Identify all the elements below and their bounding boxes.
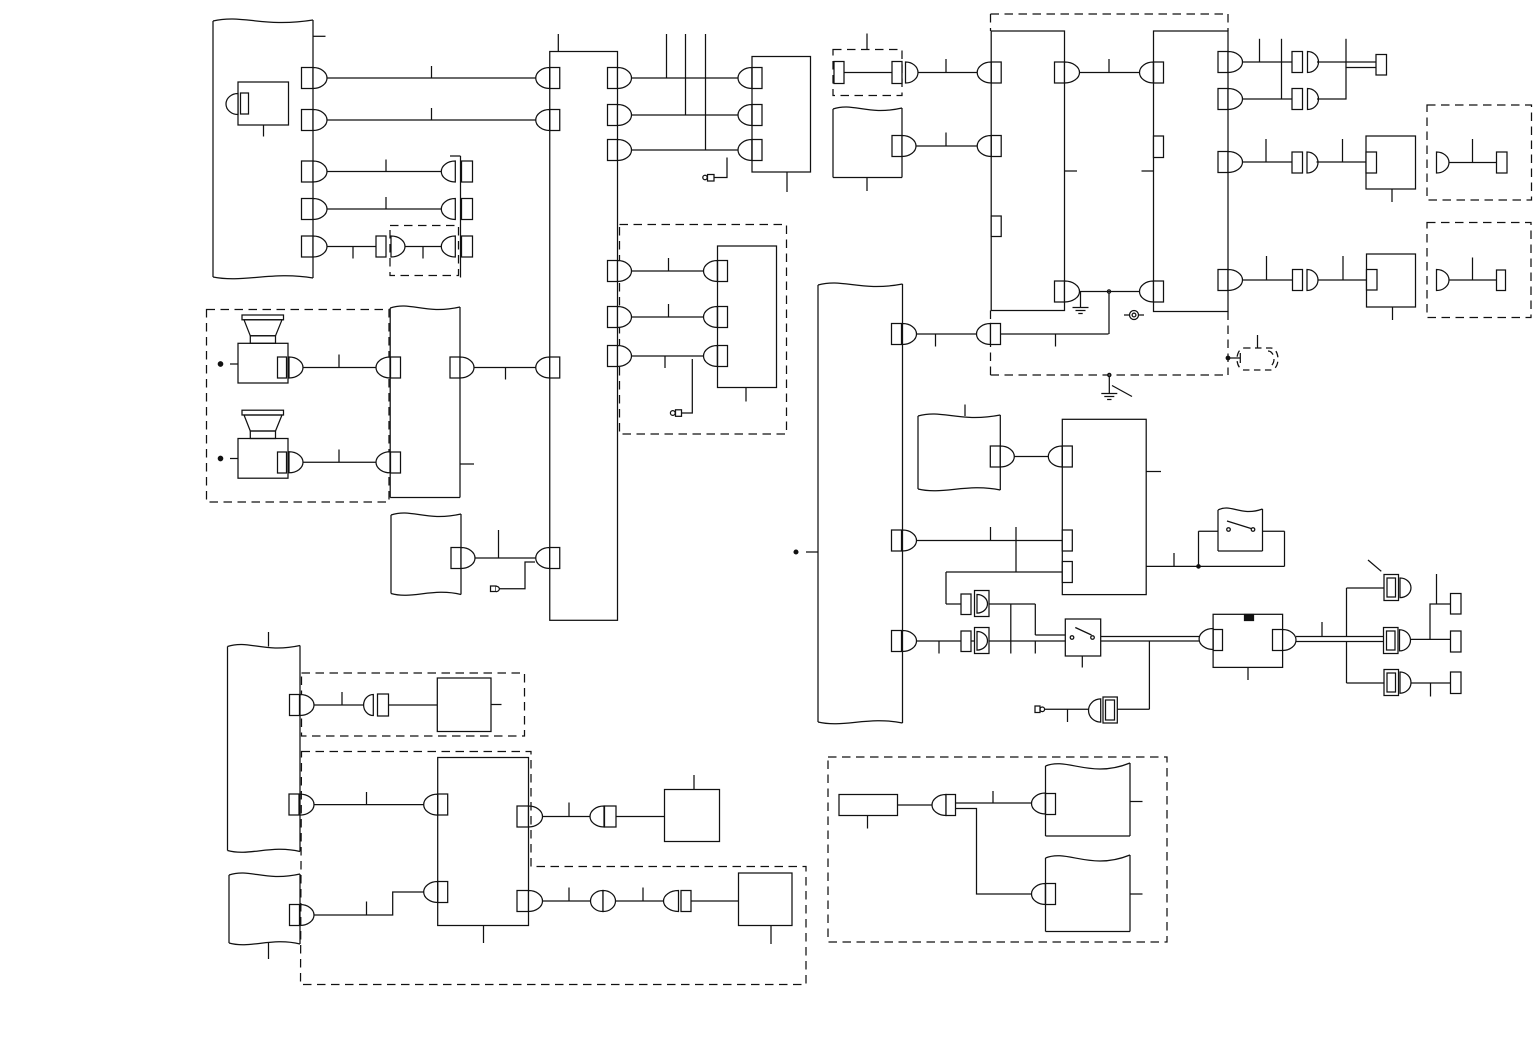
CB top stub [557, 34, 559, 52]
WH4 bottom stub [268, 943, 270, 959]
tick [1321, 622, 1323, 637]
row2 joint D [1308, 89, 1319, 110]
speaker magnet body [238, 343, 288, 383]
dashed box DB3 [302, 673, 525, 736]
B7 pin square [1367, 270, 1378, 291]
CB right pin 2 square [608, 105, 618, 126]
MB pin2 square [391, 452, 401, 473]
DB1 D right [391, 236, 405, 257]
row2 tick [668, 304, 670, 317]
wire DB2->BX1 [918, 72, 977, 74]
DBB2 tick [1472, 258, 1474, 281]
harness box WH2 (wavy ends) [918, 414, 1000, 418]
row3 tick [664, 356, 666, 368]
wire BX2 row4 [1243, 279, 1293, 281]
B3 left square2 (no D) [1062, 530, 1072, 551]
SW1 contact R [1251, 528, 1255, 532]
CN2 D [1400, 630, 1411, 651]
DBB left lower [990, 311, 992, 376]
tick 2 [642, 888, 644, 902]
B9 top stub [693, 775, 695, 790]
TB right pin2 square [517, 891, 529, 912]
BX2 left pin2 D [1140, 281, 1154, 302]
BX2 left pin1 square [1154, 62, 1164, 83]
CB right pin 5 square [608, 307, 618, 328]
AL4 circle [1040, 707, 1045, 712]
BX2 left square (no D) [1154, 136, 1164, 158]
tick [366, 902, 368, 916]
component box B6 [1366, 136, 1416, 189]
BX1 right pin2 square [1055, 281, 1065, 302]
SP1 dash [230, 363, 238, 365]
wire CB->B5 row2 [632, 114, 739, 116]
CB right pin 4 D [618, 261, 632, 282]
terminal T0 [1376, 55, 1387, 76]
tick [935, 334, 937, 347]
ground G2 junction circle [1108, 373, 1111, 376]
TB left pin1 D [424, 794, 438, 815]
B4 right pin square [1273, 630, 1283, 651]
joint D-in-box JC1b [975, 591, 990, 617]
wire to B9 [616, 816, 665, 818]
ground G2 [1101, 393, 1117, 395]
H1 pin 2 D [313, 110, 327, 131]
SW1 blade [1227, 521, 1251, 529]
tick [945, 59, 947, 73]
BX2 right pin 4 D [1228, 270, 1243, 291]
mated pair D left [591, 891, 604, 912]
CH left stub [806, 551, 818, 553]
CMP1 inner pin rect [241, 93, 249, 114]
junction block BX1 [991, 31, 1064, 311]
wire CB->B11 row1 [632, 270, 704, 272]
CB left pin3 D [536, 357, 550, 378]
component box B3 [1062, 419, 1146, 594]
joint rect JC2a [961, 631, 971, 652]
DBB bottom [991, 374, 1229, 376]
wire to B7 [1318, 279, 1367, 281]
row1 tick [1259, 39, 1261, 62]
BX2 right pin 1 D [1228, 52, 1243, 73]
noise filter F1 lead left [1124, 314, 1130, 316]
G2 diagonal stroke [1112, 386, 1132, 397]
dashed box DBA [1427, 105, 1532, 200]
row3 tick [1265, 139, 1267, 162]
branch wire to CN1 [1347, 587, 1385, 589]
J1 row1 square [462, 161, 473, 182]
wire A to WH5 [956, 802, 1032, 804]
BX2 right pin 3 square [1218, 152, 1228, 173]
H1 pin 4 square [302, 199, 314, 220]
speaker cone [244, 415, 282, 431]
CH pin2 D [903, 530, 917, 551]
tick [366, 792, 368, 805]
component box TB [438, 758, 529, 926]
component box B4 (tuner) [1213, 614, 1283, 667]
AL2 plug rect [676, 410, 682, 417]
CB right pin 4 square [608, 261, 618, 282]
tall tick [1436, 574, 1438, 604]
WH6 pin square [1046, 884, 1056, 905]
B5 pin2 D [738, 105, 752, 126]
WH1 pin D [902, 136, 916, 157]
vertical feed line 2 [685, 34, 687, 115]
joint row wire a [946, 603, 961, 605]
DBA D [1437, 152, 1450, 173]
tick [1173, 553, 1175, 566]
wire W5 H1->inline connector [327, 246, 376, 248]
DB2 right rect [892, 62, 902, 84]
joint row wire b [989, 603, 1035, 605]
component box B11 [718, 246, 777, 388]
row1 tick [668, 258, 670, 271]
shielded pair wire lower SW2->B4 [1101, 640, 1199, 642]
tick/branch [1345, 39, 1347, 68]
SW2 bottom stub [1081, 656, 1083, 668]
CB right pin 2 D [618, 105, 632, 126]
terminal T2 [1451, 631, 1462, 652]
pair wire upper B4->CN2 [1296, 636, 1384, 638]
W1 tick [431, 66, 433, 78]
loop junction dot [1197, 565, 1200, 568]
tick [1108, 59, 1110, 73]
BX1 left pin1 square [991, 62, 1001, 83]
CB right pin 5 D [618, 307, 632, 328]
central junction box CB [550, 52, 618, 621]
harness box WH5 (wavy top) [1046, 763, 1131, 769]
WH4 pin D [300, 905, 314, 926]
DBA terminal [1497, 152, 1508, 173]
WH6 right stub [1130, 893, 1143, 895]
stub on H1 top right [313, 35, 326, 37]
AL4 wire [1045, 708, 1089, 710]
BX2 left pin1 D [1140, 62, 1154, 83]
ground G1 stem [1080, 292, 1082, 308]
branch riser up [1346, 588, 1348, 637]
WH4 pin square [290, 905, 300, 926]
tick [568, 803, 570, 817]
H1 pin 1 square [302, 68, 314, 89]
dashed box DBR [828, 757, 1167, 942]
H1 pin 3 square [302, 161, 314, 182]
H1 pin 1 D [313, 68, 327, 89]
WH3 top stub [268, 632, 270, 647]
wire to B8 [389, 704, 438, 706]
B4 pin D [1199, 629, 1213, 650]
harness box MB (wavy top) [390, 306, 460, 310]
inline connector rect on W5 [376, 236, 386, 257]
B5 bottom stub [786, 172, 788, 192]
wire to B10 [691, 900, 739, 902]
wire MB->CB [474, 367, 536, 369]
DB2 output D [906, 62, 918, 83]
drop to joint row [945, 572, 947, 604]
joint rect JC1a [961, 594, 971, 615]
wire CB->B5 row1 [632, 77, 739, 79]
WH3 pin2 square [289, 794, 299, 815]
B6 bottom stub [1391, 189, 1393, 202]
CN1 D [1400, 578, 1411, 598]
wire W1 H1->CB [327, 77, 536, 79]
speaker cone [244, 320, 282, 336]
component box B9 [665, 790, 720, 842]
BX1 left square (no D) [991, 216, 1001, 237]
CMP1 pin D [226, 94, 238, 115]
wire R1->joint [898, 804, 933, 806]
speaker magnet body [238, 439, 288, 479]
AL2 wire [682, 359, 693, 413]
wire CH->B3 pin2 [917, 540, 1063, 542]
wire BX1->BX2 top [1080, 72, 1141, 74]
CB left pin2 D [536, 110, 550, 131]
loop wire to SW1 [1199, 530, 1219, 532]
tick [1055, 334, 1057, 347]
wire to antenna rod [1230, 357, 1241, 359]
coax plug D [1089, 699, 1101, 722]
DBB right upper [1227, 14, 1229, 31]
wire BX2 row1 [1243, 61, 1293, 63]
CB right pin 6 D [618, 346, 632, 367]
SW2 contact R [1091, 636, 1095, 640]
wire W4 H1->strip J1 [327, 208, 442, 210]
dashed box DBB around BX1/BX2 - top [991, 13, 1229, 15]
B5 pin3 D [738, 140, 752, 161]
wire TB->joint row1 [543, 816, 590, 818]
B5 pin1 D [738, 68, 752, 89]
B11 pin2 square [718, 307, 728, 328]
row4 joint rect [1293, 270, 1303, 291]
BX2 left stub [1142, 170, 1154, 172]
SW2 blade [1075, 628, 1091, 636]
component box B7 [1367, 254, 1416, 307]
wire W5b [405, 246, 442, 248]
B8 right stub [491, 704, 502, 706]
CB left pin1 D [536, 68, 550, 89]
branch drop down [1346, 642, 1348, 684]
W5 tick [352, 247, 354, 259]
junction block BX2 [1154, 31, 1229, 312]
BX2 left pin2 square [1154, 281, 1164, 302]
J1 row2 D [441, 199, 455, 220]
wire W3 H1->strip J1 [327, 171, 442, 173]
harness box WH6 (wavy top) [1046, 855, 1131, 861]
W3 tick [385, 160, 387, 172]
joint D row2 [664, 891, 679, 912]
CB left pin4 square [550, 548, 560, 569]
CH pin3 square [892, 631, 902, 652]
CB right pin 3 D [618, 140, 632, 161]
wire WH3->TB [314, 804, 424, 806]
row2 wire and riser to T0 [1317, 68, 1376, 100]
wire W2 H1->CB [327, 119, 536, 121]
component box B5 [752, 57, 811, 173]
J1 row1 D [441, 161, 455, 182]
AL3 wire [499, 562, 535, 589]
SP2 wire tick [338, 450, 340, 463]
CH pin1 square [892, 324, 902, 345]
SP1 pin rect [278, 357, 287, 378]
B6 pin square [1366, 152, 1377, 173]
B11 pin1 D [704, 261, 718, 282]
wire to B6 [1317, 161, 1367, 163]
B4 right pin D [1283, 630, 1296, 651]
wire CB->B11 row2 [632, 316, 704, 318]
tick [341, 692, 343, 705]
BX2 right pin 2 square [1218, 89, 1228, 110]
DBB left upper [990, 14, 992, 31]
H1 pin 4 D [313, 199, 327, 220]
BX1 right pin1 square [1055, 62, 1065, 83]
dashed box DSP (speakers) [207, 310, 390, 503]
CN1 inner [1387, 578, 1396, 597]
dashed box DBB2 [1427, 223, 1531, 318]
WH3 pin2 D [300, 794, 314, 815]
connecting vertical V1 [1010, 604, 1012, 654]
R1 bottom stub [867, 816, 869, 829]
tick [1342, 139, 1344, 162]
junction dot [1107, 290, 1110, 293]
condenser rect R1 [839, 795, 898, 816]
wire row1 to T0 [1317, 61, 1376, 63]
center harness box CH (wavy ends) [818, 283, 903, 287]
F1 inner circle [1132, 313, 1136, 317]
wire CH->SW2 [917, 640, 1066, 642]
B11 pin2 D [704, 307, 718, 328]
wire tick [505, 368, 507, 380]
B3 left square3 (no D) [1062, 562, 1072, 583]
J1 row3 square [462, 236, 473, 257]
F1 outer circle [1130, 311, 1139, 320]
B5 pin2 square [752, 105, 762, 126]
joint rect [378, 694, 389, 716]
CB left pin2 square [550, 110, 560, 131]
coax wire [1117, 708, 1149, 710]
switch box SW2 [1065, 619, 1100, 656]
BX2 right pin 3 D [1228, 152, 1243, 173]
tick [1342, 256, 1344, 280]
junction dot on DBB right [1226, 356, 1230, 360]
SP2 dot [218, 456, 222, 460]
SP1 pin D [289, 357, 303, 378]
H1 pin 5 square [302, 236, 314, 257]
B11 pin3 square [718, 346, 728, 367]
DBA wire [1449, 162, 1497, 164]
coax riser [1148, 641, 1150, 709]
B4 black mark [1245, 615, 1254, 621]
antenna rod (dashed cylinder) [1237, 348, 1278, 370]
DB2 left rect [834, 62, 844, 84]
tick [945, 133, 947, 147]
ground wire from BX1 pin2 [1080, 291, 1141, 293]
harness connector box H1 (wavy ends) [213, 19, 313, 23]
BX1 left pin2 D [977, 136, 991, 157]
B11 pin1 square [718, 261, 728, 282]
joint D-in-box JC2b [975, 628, 990, 654]
CB left pin4 D [536, 548, 550, 569]
joint square [946, 795, 956, 816]
row1 joint D [1308, 52, 1319, 73]
DB2 internal wire [844, 72, 892, 74]
DBB left pin D [977, 324, 991, 345]
BX2 right pin 1 square [1218, 52, 1228, 73]
harness box WH3 (wavy ends) [228, 644, 301, 648]
LB right pin D [461, 548, 475, 569]
BX1 left pin1 D [977, 62, 991, 83]
B3 right stub [1146, 471, 1161, 473]
SW2 contact L [1070, 636, 1074, 640]
wire B elbow to WH6 [956, 809, 1032, 895]
row3 joint D [1307, 152, 1318, 173]
wire CN3->T3 [1411, 682, 1451, 684]
W5b tick [422, 247, 424, 259]
SP2 pin D [289, 452, 303, 473]
DBA tick [1472, 139, 1474, 163]
CB right pin 6 square [608, 346, 618, 367]
row3 joint rect [1292, 152, 1303, 173]
switch harness SW1 (wavy top) [1218, 508, 1263, 512]
MB pin1 square [391, 357, 401, 378]
TB bottom stub [483, 926, 485, 944]
feed wire inside DBB [1001, 333, 1109, 335]
MB pin1 D [376, 357, 390, 378]
loop right riser [1284, 531, 1286, 566]
B3 pin1 square [1062, 446, 1072, 467]
AL4 tick down [1067, 709, 1069, 722]
B5 pin1 square [752, 68, 762, 89]
J1 top bracket [450, 155, 461, 157]
wire BX2 row3 [1243, 161, 1293, 163]
loop left riser [1198, 531, 1200, 566]
joint rect row1 [605, 806, 617, 827]
CB right pin 1 D [618, 68, 632, 89]
antenna lead AL4 rect [1035, 706, 1040, 713]
WH2 pin D [1000, 446, 1014, 467]
B3 pin1 D [1048, 446, 1062, 467]
LB right pin square [451, 548, 461, 569]
H1 pin 2 square [302, 110, 314, 131]
branch wire to CN3 [1347, 682, 1385, 684]
wire BX2 row2 [1243, 98, 1293, 100]
CB right pin 1 square [608, 68, 618, 89]
DBB2 wire [1449, 279, 1497, 281]
B4 pin square [1213, 630, 1222, 651]
branch left segment [946, 571, 1016, 573]
TB left pin1 square [438, 794, 448, 815]
CH pin3 D [903, 631, 917, 652]
component box B10 [739, 873, 793, 926]
joint D [932, 795, 946, 816]
TB left pin2 square [438, 882, 448, 903]
mated pair D right [603, 891, 616, 912]
wire [616, 900, 664, 902]
dashed box DB4 (audio unit) [620, 225, 787, 435]
WH5 pin D [1032, 793, 1046, 814]
speaker neck [250, 431, 275, 439]
shielded pair wire upper SW2->B4 [1101, 636, 1199, 638]
wire into SW2 upper [1035, 634, 1065, 636]
terminal T1 [1451, 594, 1462, 615]
BX1 right stub [1065, 170, 1078, 172]
DB2 top stub [866, 34, 868, 50]
connector CN3 outer [1384, 670, 1399, 696]
wire CN2->T2 [1411, 638, 1451, 640]
tick down [1430, 683, 1432, 697]
wire B3->switch loop [1146, 565, 1284, 567]
J1 row2 square [462, 199, 473, 220]
tick a [990, 527, 992, 541]
G2 stem [1108, 377, 1110, 394]
AL1 plug rect [708, 175, 715, 182]
